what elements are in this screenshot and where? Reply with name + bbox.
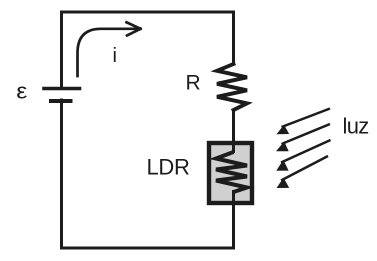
svg-text:i: i [113, 45, 117, 67]
svg-text:LDR: LDR [147, 155, 190, 180]
svg-text:luz: luz [343, 114, 369, 139]
svg-text:R: R [186, 72, 201, 95]
svg-text:ε: ε [16, 79, 28, 103]
